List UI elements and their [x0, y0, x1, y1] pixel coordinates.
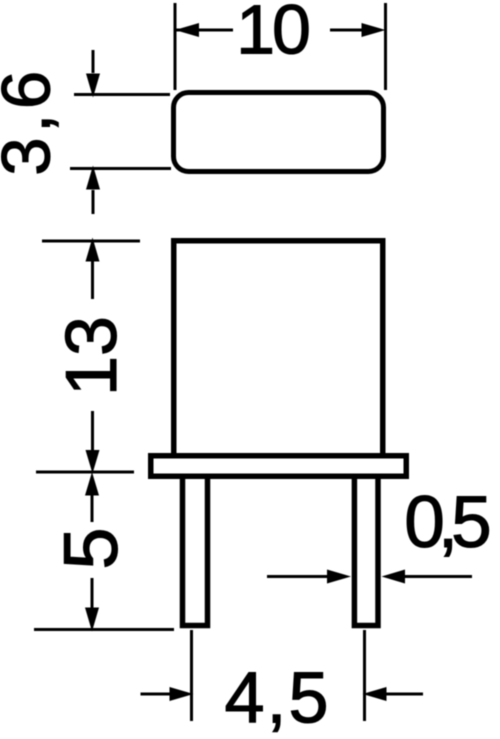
- svg-text:13: 13: [52, 316, 132, 396]
- svg-text:10: 10: [236, 0, 309, 69]
- svg-text:4,5: 4,5: [224, 659, 330, 739]
- svg-text:0,5: 0,5: [404, 482, 489, 563]
- svg-text:3,6: 3,6: [0, 66, 65, 175]
- svg-text:5: 5: [49, 527, 134, 569]
